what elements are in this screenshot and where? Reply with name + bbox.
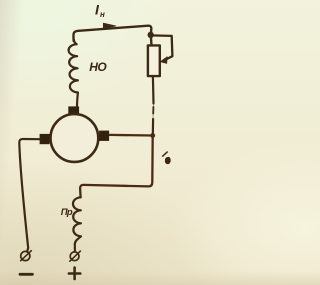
wire junction to resistor top — [150, 35, 153, 46]
node junction top — [148, 32, 154, 38]
wire faint section — [152, 104, 155, 120]
label In — [95, 2, 105, 20]
arrowhead tap — [160, 57, 167, 64]
svg-text:н: н — [100, 10, 105, 19]
resistor R (rheostat body) — [148, 45, 160, 76]
arrowhead In — [103, 23, 116, 29]
label + — [69, 268, 80, 280]
wire to right junction — [152, 119, 155, 135]
node junction right — [150, 133, 155, 138]
terminal - (plug symbol) — [21, 251, 30, 260]
wire top (supply line with corners) — [73, 26, 151, 41]
wire faint dash — [152, 107, 154, 114]
terminal + (plug symbol) — [70, 252, 79, 261]
wire left lead down — [19, 139, 40, 252]
inductor NO (shunt winding) — [69, 44, 78, 106]
motor armature M — [51, 114, 99, 162]
wire resistor bottom down — [152, 76, 155, 103]
wire armature right lead — [109, 134, 152, 137]
wire right vertical + bottom run — [80, 136, 153, 198]
svg-text:НО: НО — [89, 60, 107, 74]
label minus — [20, 273, 32, 276]
wire rheostat tap loop — [151, 35, 173, 60]
brush left — [40, 134, 50, 144]
label Id — [160, 149, 170, 161]
svg-text:Пр: Пр — [61, 207, 73, 218]
wire NO branch lead — [74, 39, 77, 44]
inductor Pr (series winding) — [73, 197, 81, 250]
brush right — [99, 131, 109, 141]
brush top — [68, 106, 79, 114]
